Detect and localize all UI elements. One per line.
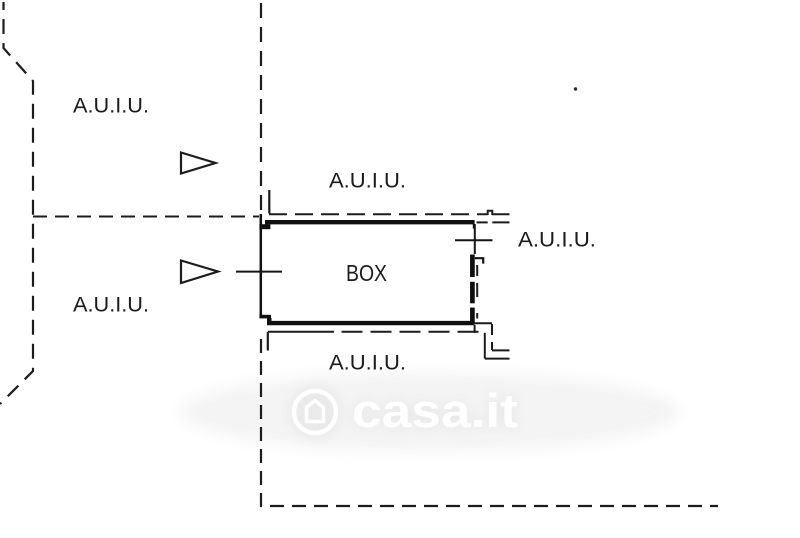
- upper boundary solid continuation: [492, 213, 509, 215]
- left boundary dashed polyline: [0, 2, 33, 404]
- top wall right end tick: [473, 224, 476, 229]
- direction arrow upper: [181, 153, 216, 174]
- svg-text:A.U.I.U.: A.U.I.U.: [73, 294, 149, 317]
- small speck: [574, 87, 577, 90]
- bottom-left wall notch: [259, 315, 271, 319]
- vertical and bottom dashed property line: [261, 339, 718, 506]
- BOX top wall: [265, 220, 475, 224]
- upper outer boundary dash 1: [477, 221, 488, 223]
- upper boundary dashed line: [269, 213, 488, 215]
- svg-text:casa.it: casa.it: [352, 384, 518, 437]
- lower boundary inner line horizontal: [475, 322, 492, 324]
- svg-text:BOX: BOX: [346, 260, 387, 286]
- right dimension tick: [455, 239, 493, 241]
- neighbour wall stub above box: [268, 190, 270, 214]
- lower boundary inner line bottom: [492, 349, 510, 351]
- lower boundary inner line vertical dashed: [491, 324, 493, 350]
- BOX bottom wall: [267, 321, 475, 325]
- upper outer boundary dash 2: [492, 221, 509, 223]
- garage door leaf segment 2: [470, 282, 475, 304]
- svg-text:A.U.I.U.: A.U.I.U.: [329, 352, 406, 375]
- door hinge hook: [475, 258, 483, 263]
- lower boundary outer vertical: [484, 333, 486, 359]
- upper boundary bump: [488, 211, 493, 215]
- lower boundary outer dashed continuation: [342, 331, 486, 333]
- svg-text:A.U.I.U.: A.U.I.U.: [518, 229, 596, 252]
- bottom-left notch step: [267, 318, 272, 322]
- horizontal dashed property line: [33, 216, 259, 218]
- svg-text:A.U.I.U.: A.U.I.U.: [73, 95, 149, 118]
- BOX left wall: [260, 214, 263, 316]
- vertical dashed property line upper: [260, 3, 262, 213]
- direction arrow lower: [181, 261, 218, 284]
- right door jamb thin line: [474, 224, 476, 254]
- watermark house icon: [307, 401, 324, 422]
- garage door leaf segment 3: [470, 308, 475, 323]
- lower boundary outer bottom: [485, 358, 510, 360]
- top-left wall notch: [259, 224, 270, 229]
- door opening dash 2: [476, 283, 478, 297]
- lower boundary outer dashed horizontal: [268, 331, 334, 333]
- door opening dash 3: [476, 313, 478, 319]
- garage door leaf segment 1: [470, 255, 475, 278]
- watermark logo circle: [294, 391, 336, 433]
- door opening dash 1: [476, 265, 478, 276]
- watermark glow (blurred grey copy): [180, 372, 680, 452]
- wall-to-boundary connector below right wall: [474, 325, 476, 333]
- dimension line at lower arrow: [236, 271, 282, 273]
- lower boundary outer stub: [267, 332, 269, 351]
- svg-text:A.U.I.U.: A.U.I.U.: [329, 170, 406, 193]
